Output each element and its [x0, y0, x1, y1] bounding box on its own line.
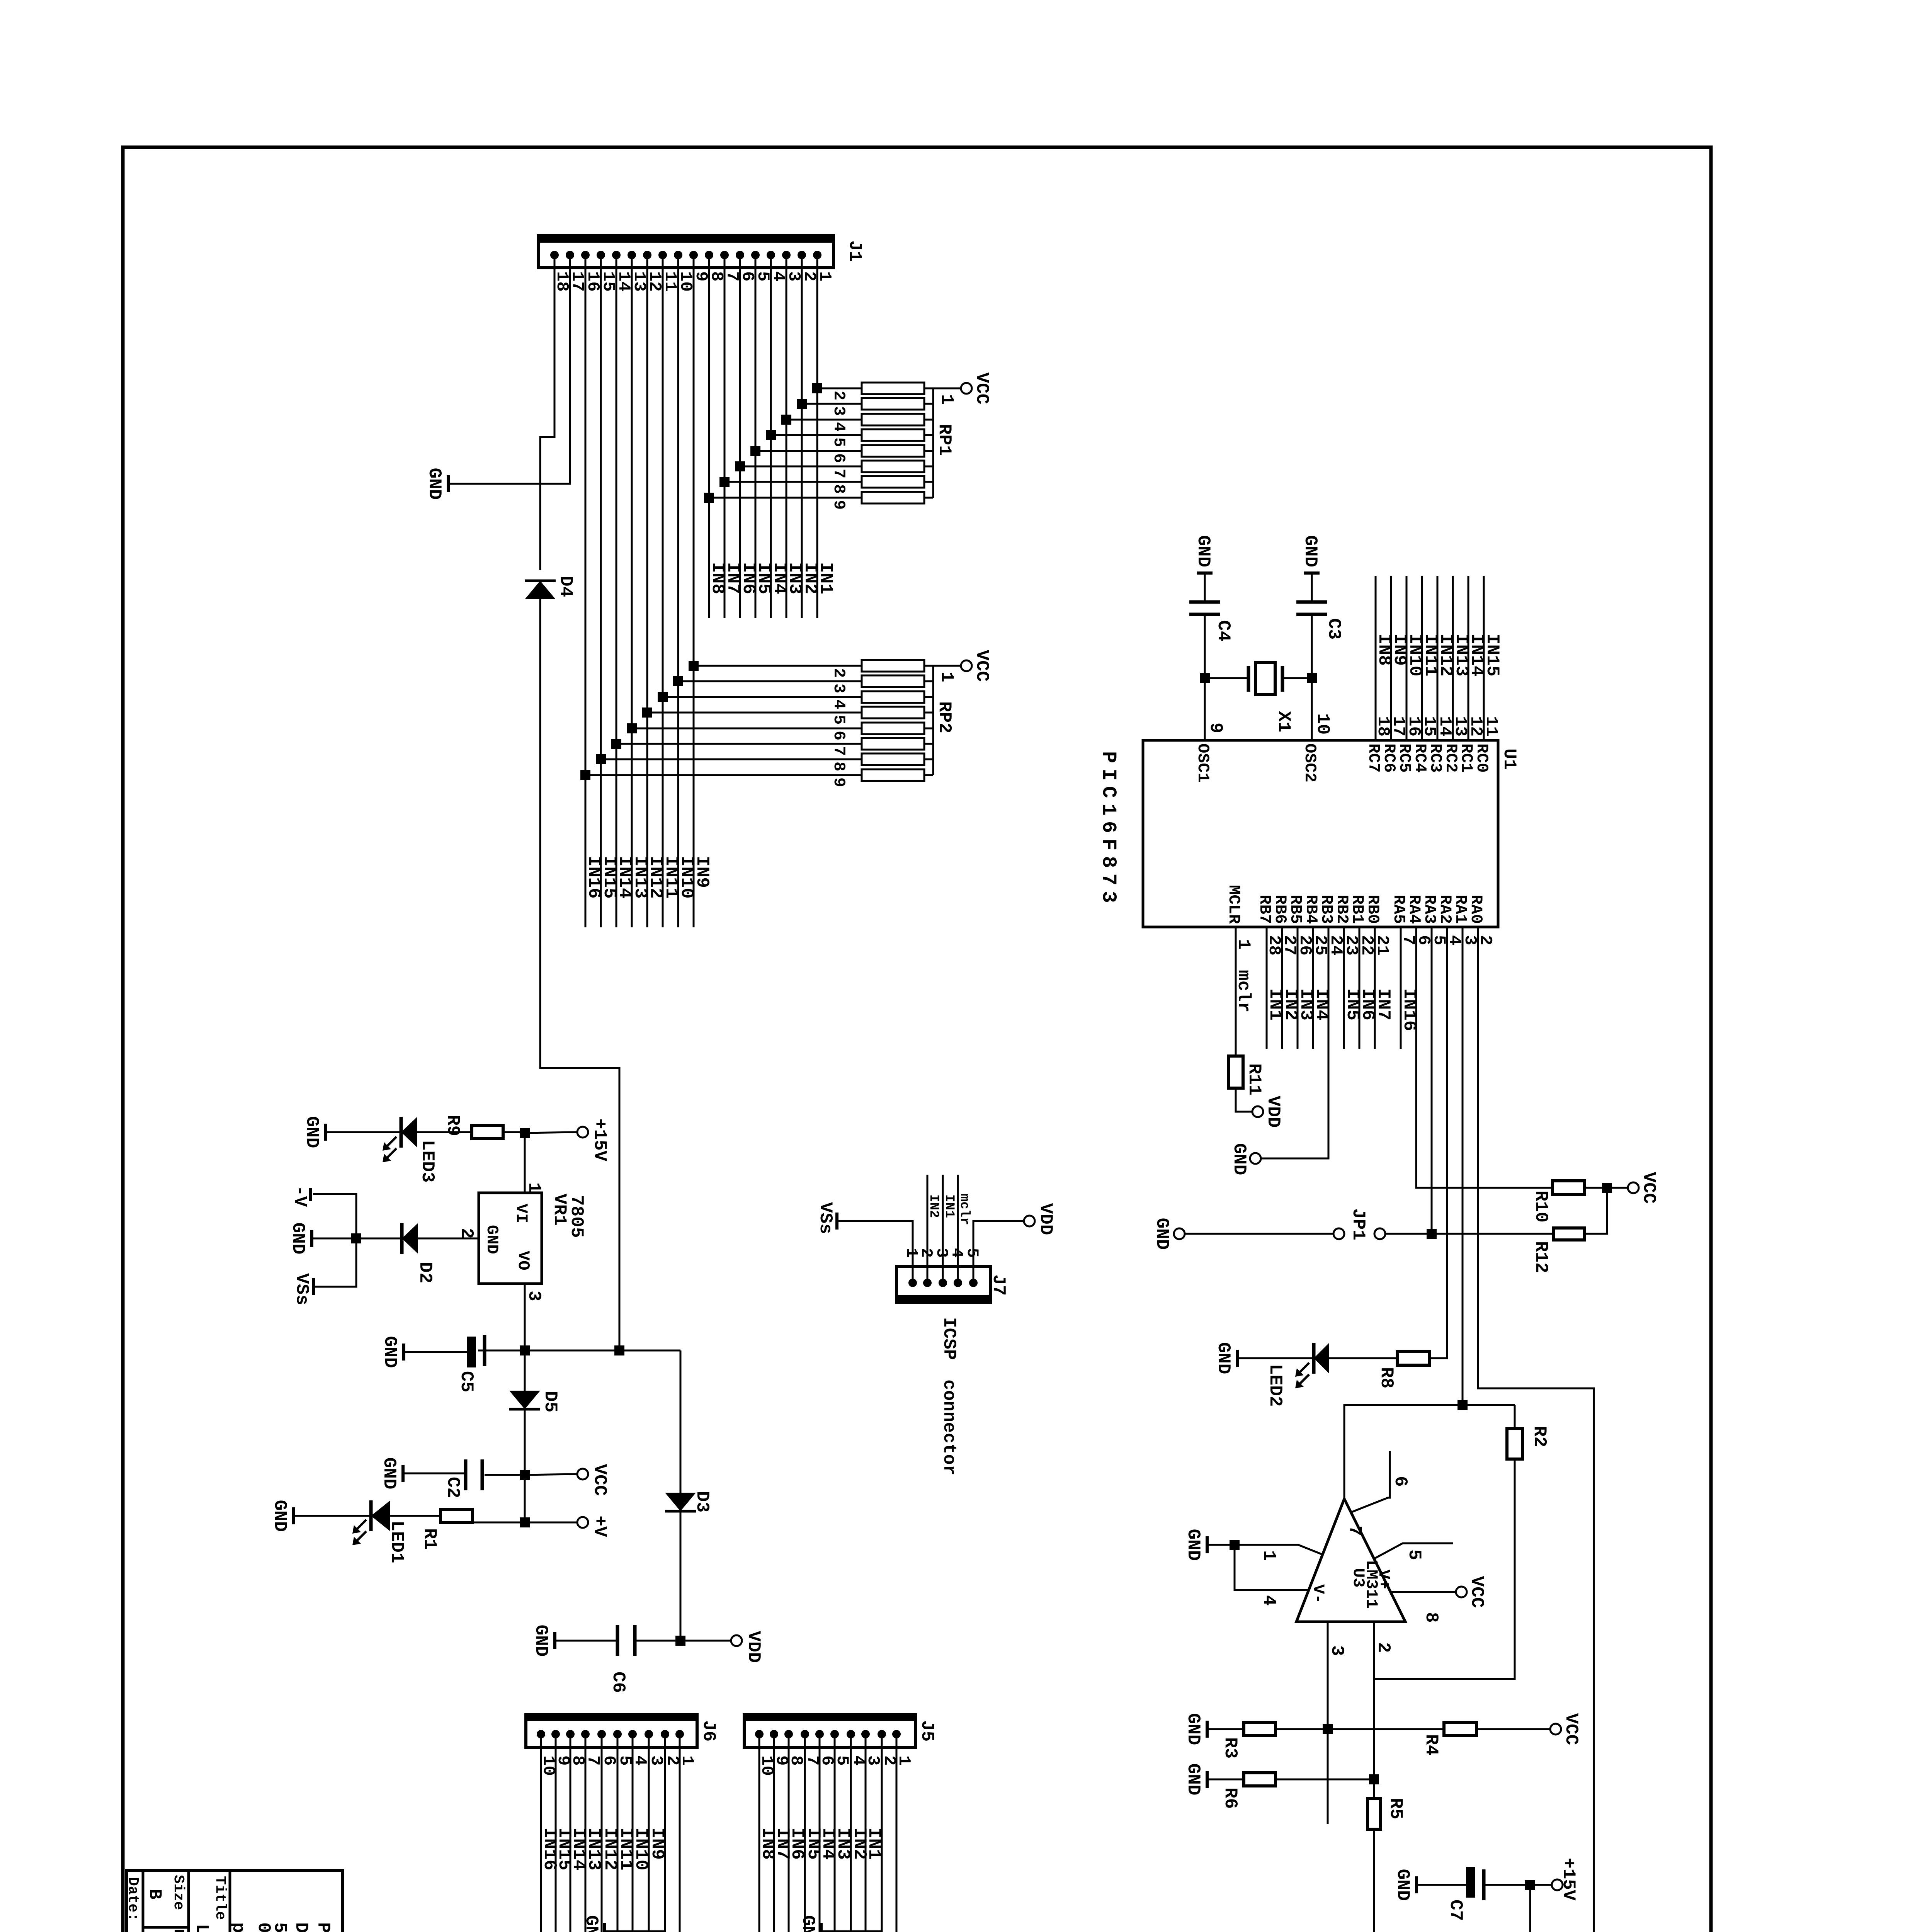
- wire regulator output bus: [478, 1350, 680, 1352]
- svg-text:P.H.Giling: P.H.Giling: [313, 1922, 333, 1932]
- svg-text:J5: J5: [917, 1720, 937, 1742]
- svg-text:1: 1: [937, 394, 957, 405]
- node junction RP2-9 on IN16: [580, 770, 590, 780]
- power VCC at RP1: [961, 383, 972, 394]
- svg-text:GND: GND: [270, 1500, 290, 1532]
- svg-text:2: 2: [456, 1228, 476, 1239]
- resistor RP2 element pin 3: [678, 680, 862, 682]
- U1 pin 21 wire net IN7: [1374, 927, 1376, 1049]
- op-amp U3 LM311 triangle: [1296, 1499, 1405, 1622]
- resistor RP1 element pin 3: [802, 403, 862, 405]
- U1 pin 6 RA4 wire to R10: [1416, 927, 1553, 1188]
- svg-text:IN8: IN8: [758, 1828, 778, 1860]
- wire J1 pin 13 net IN13: [631, 255, 633, 927]
- ground at J6: [603, 1923, 606, 1932]
- svg-text:VO: VO: [514, 1251, 532, 1270]
- wire VR1 pin3 output: [524, 1284, 526, 1350]
- resistor RP2 element pin 6: [632, 728, 862, 730]
- U3 pin 6 stub: [1351, 1451, 1390, 1512]
- svg-text:Title: Title: [212, 1876, 228, 1920]
- svg-text:GND: GND: [424, 468, 444, 500]
- capacitor C5 polarized: [478, 1350, 485, 1352]
- wire J1 pin 14 net IN14: [616, 255, 617, 927]
- U1 pin RC5 pin 16 wire net IN10: [1406, 576, 1408, 740]
- wire J5 pin 5 net IN3: [834, 1734, 836, 1932]
- power +15V at R9: [577, 1127, 588, 1138]
- U1 pin RC4 pin 15 wire net IN11: [1421, 576, 1423, 740]
- LED LED1: [369, 1500, 373, 1531]
- svg-text:D3: D3: [692, 1491, 712, 1512]
- RP2 pin1 wire to VCC: [933, 665, 961, 667]
- node junction RP2-6 on IN13: [627, 723, 637, 733]
- wire J6 pin 5 net IN11: [617, 1734, 619, 1932]
- wire R12 top to VCC junction: [1584, 1188, 1607, 1234]
- wire J1 pin 10 net IN10: [677, 255, 679, 927]
- wire output node to R2: [1514, 1405, 1516, 1429]
- power VSs below D2: [312, 1278, 315, 1295]
- svg-text:GND: GND: [1229, 1143, 1249, 1175]
- svg-text:V-: V-: [1309, 1584, 1327, 1604]
- wire J1 pin 9 net IN9: [693, 255, 695, 927]
- svg-text:R10: R10: [1531, 1190, 1551, 1223]
- node junction RP1-2 on IN1: [812, 383, 822, 393]
- title block box: [126, 1871, 343, 1932]
- wire junction to VCC: [1607, 1187, 1628, 1189]
- ground at C3: [1304, 571, 1320, 575]
- U1 pin 25 wire net IN4: [1312, 927, 1314, 1049]
- svg-text:1: 1: [524, 1182, 544, 1193]
- wire J6 pin 7 net IN13: [585, 1734, 587, 1932]
- wire D4 to regulator input: [540, 599, 619, 1350]
- wire J6 pin 6 net IN12: [601, 1734, 603, 1932]
- svg-text:R6: R6: [1220, 1787, 1240, 1809]
- svg-text:2: 2: [1373, 1642, 1393, 1653]
- ground at U3: [1206, 1536, 1209, 1553]
- resistor RP2 element pin 9: [585, 774, 862, 776]
- resistor R1: [440, 1509, 473, 1522]
- svg-text:RB0: RB0: [1364, 895, 1382, 924]
- svg-text:X1: X1: [1274, 711, 1294, 732]
- wire J1 pin 2 net IN2: [801, 255, 803, 618]
- svg-text:VSs: VSs: [292, 1273, 312, 1305]
- wire J5 pin 3 net IN1: [865, 1734, 867, 1932]
- resistor R6: [1244, 1773, 1276, 1786]
- svg-text:18: 18: [1373, 716, 1393, 736]
- wire J5 pin 9 net IN7: [773, 1734, 775, 1932]
- svg-text:4: 4: [830, 422, 848, 432]
- U1 pin 23 wire net IN5: [1343, 927, 1345, 1049]
- capacitor C6: [635, 1640, 680, 1642]
- svg-text:OSC1: OSC1: [1194, 743, 1212, 782]
- svg-text:VCC: VCC: [1467, 1576, 1487, 1608]
- resistor RP1 element pin 2: [817, 388, 862, 389]
- U1 pin RC6 pin 17 wire net IN9: [1390, 576, 1392, 740]
- svg-text:5: 5: [830, 715, 848, 724]
- wire J5 pin 1 to VCC: [868, 1734, 896, 1932]
- svg-text:mclr: mclr: [957, 1194, 971, 1225]
- U3 pin 1 and pin 4 ground wires: [1209, 1545, 1321, 1554]
- svg-text:7: 7: [830, 746, 848, 756]
- node junction RP1-8 on IN7: [719, 477, 730, 487]
- ground at C4: [1197, 571, 1213, 575]
- svg-text:ICSP: ICSP: [939, 1317, 959, 1360]
- wire VR1 pin2 to D2: [418, 1238, 479, 1240]
- connector J5: [744, 1715, 915, 1747]
- U3 pin 2 wire: [1373, 1622, 1375, 1679]
- svg-text:VCC: VCC: [972, 372, 992, 405]
- svg-text:RP2: RP2: [934, 701, 954, 733]
- wire J1 pin 7 net IN7: [724, 255, 726, 618]
- svg-text:C3: C3: [1324, 618, 1344, 639]
- svg-text:+V: +V: [590, 1515, 610, 1537]
- wire junction to +15V circle: [525, 1132, 577, 1133]
- resistor RP2 element pin 4: [663, 696, 862, 698]
- connector J7 ICSP: [896, 1267, 990, 1303]
- svg-text:1: 1: [937, 672, 957, 682]
- diode D3: [665, 1510, 696, 1513]
- resistor R3: [1244, 1723, 1276, 1736]
- wire junction to R12: [1432, 1233, 1553, 1235]
- capacitor C3: [1296, 600, 1327, 604]
- resistor RP2 element pin 2: [694, 665, 862, 667]
- U1 pin 26 wire net IN3: [1297, 927, 1299, 1049]
- svg-text:6: 6: [830, 453, 848, 463]
- node junction +V tap: [520, 1517, 530, 1527]
- U1 pin RC0 pin 11 wire net IN15: [1483, 576, 1485, 740]
- wire J5 pin 10 net IN8: [759, 1734, 760, 1932]
- svg-text:R3: R3: [1220, 1737, 1240, 1759]
- svg-text:peter.giling@modelspoorgroepve: peter.giling@modelspoorgroepvenlo.nl: [228, 1922, 248, 1932]
- svg-text:mclr: mclr: [1233, 970, 1253, 1012]
- wire J5 pin 8 net IN6: [788, 1734, 790, 1932]
- wire R5 to J3/J4 bus: [1373, 1829, 1375, 1932]
- svg-text:U1: U1: [1499, 748, 1519, 770]
- U1 pin RC3 pin 14 wire net IN12: [1437, 576, 1439, 740]
- wire R2 to pin2 node: [1374, 1459, 1515, 1679]
- wire JP1 to GND circle: [1185, 1233, 1333, 1235]
- wire J1 pin 4 net IN4: [770, 255, 772, 618]
- svg-text:9: 9: [1206, 723, 1226, 733]
- wire LED3 to ground: [327, 1131, 401, 1133]
- wire output bus over to D3: [680, 1350, 682, 1494]
- svg-text:Document Number: Document Number: [170, 1929, 187, 1932]
- wire +15V to junction: [1530, 1884, 1551, 1886]
- wire +15V junction to D1: [1529, 1885, 1531, 1932]
- svg-text:+15V: +15V: [1558, 1858, 1578, 1901]
- node junction RP2-2 on IN9: [689, 661, 699, 671]
- resistor R11: [1229, 1056, 1243, 1088]
- svg-text:GND: GND: [288, 1223, 308, 1255]
- U3 pin 3 wire: [1327, 1622, 1329, 1824]
- svg-text:Loconet multi I/O interface vo: Loconet multi I/O interface voor MGV: [192, 1924, 212, 1932]
- node junction VR1 out bus: [520, 1345, 530, 1355]
- wire bus to D5: [524, 1350, 526, 1393]
- svg-text:C2: C2: [443, 1477, 463, 1498]
- capacitor C7 polarized: [1484, 1884, 1530, 1886]
- svg-text:R2: R2: [1529, 1426, 1549, 1447]
- wire LED2 to ground: [1238, 1357, 1314, 1359]
- wire R8 to LED2: [1329, 1357, 1397, 1359]
- wire C7 to ground: [1418, 1884, 1466, 1886]
- resistor R4: [1444, 1723, 1476, 1736]
- svg-text:GND: GND: [531, 1625, 551, 1657]
- wire J6 pin 8 net IN14: [570, 1734, 571, 1932]
- ground at D2: [310, 1230, 313, 1247]
- svg-text:V+: V+: [1374, 1570, 1393, 1589]
- svg-text:IN16: IN16: [584, 856, 604, 898]
- ground circle at RB3: [1250, 1153, 1261, 1164]
- wire R1 to LED1: [390, 1515, 440, 1517]
- node junction RP1-5 on IN4: [766, 430, 776, 440]
- svg-text:GND: GND: [798, 1915, 818, 1932]
- power -V below D2: [309, 1188, 312, 1201]
- wire J1 pin 1 net IN1: [816, 255, 818, 618]
- wire J7 pin2 net IN2: [927, 1175, 929, 1283]
- svg-text:IN8: IN8: [707, 562, 728, 594]
- svg-text:R8: R8: [1376, 1367, 1396, 1388]
- ground at C2: [401, 1465, 405, 1482]
- svg-text:2: 2: [830, 391, 848, 400]
- svg-text:7805: 7805: [566, 1195, 587, 1238]
- node junction +15V R9: [520, 1128, 530, 1138]
- svg-text:D2: D2: [415, 1262, 435, 1283]
- resistor RP2 element pin 5: [647, 712, 862, 714]
- svg-text:IN16: IN16: [539, 1828, 560, 1870]
- node junction RP1-6 on IN5: [750, 446, 760, 456]
- resistor RP1 element pin 5: [771, 434, 862, 436]
- ground at C7: [1415, 1876, 1418, 1893]
- ground at C6: [553, 1632, 556, 1649]
- node junction pin3 R3R4: [1323, 1724, 1333, 1734]
- U1 pin MCLR pin 1 wire net mclr: [1235, 927, 1237, 1056]
- U1 pin RC2 pin 13 wire net IN13: [1452, 576, 1454, 740]
- svg-text:U3: U3: [1349, 1568, 1367, 1587]
- ground circle at JP1: [1174, 1228, 1185, 1239]
- wire R4 to R3: [1276, 1728, 1444, 1730]
- U1 pin 27 wire net IN2: [1281, 927, 1283, 1049]
- resistor RP2 element pin 7: [616, 743, 862, 745]
- svg-text:GND: GND: [1183, 1764, 1203, 1796]
- node junction +15V D1 C7: [1525, 1880, 1535, 1890]
- wire J6 pin 1 to VCC: [651, 1734, 680, 1932]
- wire J7 pin1 to VSs: [838, 1221, 913, 1283]
- U1 pin RC1 pin 12 wire net IN14: [1468, 576, 1469, 740]
- U1 pin OSC2 pin 10 wire: [1311, 575, 1313, 602]
- svg-text:R1: R1: [420, 1528, 440, 1549]
- wire J1 pin 11 net IN11: [662, 255, 664, 927]
- svg-text:7: 7: [1345, 1526, 1365, 1536]
- wire junction to GND: [313, 1238, 356, 1240]
- svg-text:6: 6: [830, 731, 848, 740]
- node junction VCC R10/R12: [1602, 1183, 1612, 1193]
- svg-text:JP1: JP1: [1348, 1208, 1368, 1240]
- svg-text:2: 2: [830, 668, 848, 678]
- IC U1 PIC16F873 body: [1143, 740, 1498, 927]
- resistor R2: [1507, 1429, 1522, 1459]
- svg-text:PIC16F873: PIC16F873: [1097, 751, 1120, 908]
- wire VCC to R4 R3 chain: [1476, 1728, 1550, 1730]
- U1 pin 22 wire net IN6: [1359, 927, 1361, 1049]
- diode D5: [509, 1408, 540, 1411]
- node junction RP1-9 on IN8: [704, 493, 714, 503]
- capacitor C2: [485, 1474, 525, 1476]
- svg-text:connector: connector: [939, 1379, 959, 1475]
- ground at J1 pin 17: [447, 475, 450, 492]
- resistor R5: [1367, 1798, 1381, 1829]
- wire R9 to LED3: [417, 1131, 472, 1133]
- ground at J5: [820, 1923, 823, 1932]
- wire R6 to ground: [1276, 1779, 1374, 1781]
- node junction RP2-4 on IN11: [658, 692, 668, 702]
- wire J1 pin 3 net IN3: [786, 255, 787, 618]
- svg-text:LED2: LED2: [1265, 1364, 1285, 1406]
- svg-text:Size: Size: [170, 1875, 187, 1910]
- power VCC at R4: [1550, 1724, 1561, 1735]
- svg-text:GND: GND: [1183, 1713, 1203, 1745]
- svg-text:GND: GND: [483, 1225, 501, 1254]
- U1 pin OSC1 pin 9 wire: [1204, 575, 1206, 602]
- svg-text:GND: GND: [1193, 535, 1213, 567]
- svg-text:R11: R11: [1244, 1063, 1264, 1095]
- svg-text:VDD: VDD: [1263, 1096, 1283, 1128]
- RP1 common bus wire: [932, 388, 934, 498]
- svg-text:GND: GND: [380, 1336, 400, 1368]
- svg-text:8: 8: [1421, 1612, 1441, 1623]
- wire LED1 to ground: [295, 1515, 371, 1517]
- resistor R9: [503, 1131, 525, 1133]
- power VCC at RP2: [961, 660, 972, 671]
- svg-text:077 3985133: 077 3985133: [253, 1922, 274, 1932]
- svg-text:5: 5: [963, 1248, 981, 1258]
- wire J5 pin 7 net IN5: [804, 1734, 806, 1932]
- svg-text:IN1: IN1: [942, 1194, 956, 1218]
- resistor R10: [1553, 1181, 1585, 1194]
- node junction R6 on pin2 node: [1369, 1774, 1379, 1784]
- wire VR1 pin1 input: [524, 1133, 526, 1193]
- svg-text:IN7: IN7: [1373, 988, 1393, 1020]
- wire J5 pin 2 to GND: [822, 1734, 882, 1931]
- svg-text:LED3: LED3: [417, 1140, 437, 1182]
- node junction RA3 JP1: [1427, 1229, 1437, 1239]
- power +15V at C7: [1552, 1879, 1563, 1890]
- U1 pin RC7 pin 18 wire net IN8: [1375, 576, 1377, 740]
- wire C6 to ground: [556, 1640, 617, 1642]
- wire J6 pin 3 net IN9: [648, 1734, 650, 1932]
- capacitor C4: [1189, 600, 1220, 604]
- svg-text:VCC: VCC: [1561, 1713, 1581, 1745]
- svg-text:GND: GND: [1152, 1218, 1172, 1250]
- wire J6 pin 4 net IN10: [632, 1734, 634, 1932]
- svg-text:GND: GND: [1300, 535, 1320, 567]
- svg-text:IN8: IN8: [1374, 634, 1394, 666]
- node junction RP1-7 on IN6: [735, 461, 745, 471]
- ground at R6: [1206, 1771, 1209, 1788]
- wire J1 pin 8 net IN8: [708, 255, 710, 618]
- node junction RA1 output: [1458, 1400, 1468, 1410]
- node junction D4 feed: [614, 1345, 624, 1355]
- svg-text:VDD: VDD: [743, 1631, 764, 1663]
- wire J7 pin3 net IN1: [942, 1175, 944, 1283]
- U1 pin 3 RA1 wire to comparator output: [1462, 927, 1464, 1405]
- svg-text:RP1: RP1: [934, 424, 954, 456]
- svg-text:R12: R12: [1531, 1241, 1551, 1273]
- node junction D2 grounds: [351, 1233, 361, 1243]
- svg-text:VSs: VSs: [815, 1202, 835, 1234]
- wire J6 pin 10 net IN16: [540, 1734, 542, 1932]
- svg-text:8: 8: [830, 484, 848, 494]
- svg-text:-V: -V: [290, 1185, 310, 1207]
- svg-text:3: 3: [1327, 1645, 1347, 1656]
- node junction RP2-3 on IN10: [673, 676, 683, 686]
- power VCC at U3 pin8: [1456, 1587, 1467, 1597]
- wire pin2 node through R5: [1373, 1679, 1375, 1798]
- svg-text:B: B: [145, 1889, 165, 1900]
- resistor RP2 element pin 8: [601, 759, 862, 760]
- svg-text:GND: GND: [379, 1458, 399, 1490]
- svg-text:9: 9: [830, 500, 848, 510]
- svg-text:RC7: RC7: [1364, 743, 1383, 773]
- wire J1 pin 5 net IN5: [755, 255, 757, 618]
- RP2 common bus wire: [932, 666, 934, 775]
- crystal X1: [1200, 673, 1210, 683]
- svg-text:C4: C4: [1213, 620, 1233, 641]
- node junction RP2-7 on IN14: [611, 739, 621, 749]
- voltage regulator VR1 7805 body: [479, 1193, 542, 1284]
- resistor RP1 element pin 4: [786, 419, 862, 421]
- power VCC at R10 R12: [1628, 1182, 1639, 1193]
- svg-text:R5: R5: [1386, 1798, 1406, 1819]
- svg-text:IN2: IN2: [926, 1194, 941, 1218]
- wire J7 pin4 net mclr: [957, 1175, 959, 1283]
- svg-text:1: 1: [1233, 939, 1253, 950]
- wire J1 pin 12 net IN12: [646, 255, 648, 927]
- wire J1 pin 16 net IN16: [585, 255, 587, 927]
- svg-text:3: 3: [830, 684, 848, 693]
- wire J6 pin 2 to GND: [605, 1734, 665, 1931]
- node junction RP2-8 on IN15: [596, 754, 606, 764]
- U1 pin 28 wire net IN1: [1266, 927, 1268, 1049]
- wire D3 to VDD C6 junction: [680, 1511, 682, 1641]
- wire J1 pin 17 to GND: [450, 255, 570, 484]
- resistor RP1 element pin 7: [740, 466, 862, 468]
- resistor R12: [1553, 1228, 1584, 1240]
- wire J1 pin 18 +15V input: [540, 255, 554, 570]
- svg-text:3: 3: [830, 406, 848, 416]
- svg-text:6: 6: [1390, 1476, 1410, 1487]
- svg-text:GND: GND: [1393, 1869, 1413, 1901]
- svg-text:Date:: Date:: [124, 1877, 141, 1921]
- power VDD in supply: [731, 1635, 742, 1646]
- wire C2 to ground: [405, 1473, 466, 1475]
- U1 pin 24 RB3 wire to GND: [1261, 927, 1328, 1158]
- svg-text:J1: J1: [845, 240, 865, 262]
- svg-text:OSC2: OSC2: [1301, 743, 1319, 782]
- svg-text:VCC: VCC: [590, 1464, 610, 1496]
- svg-text:De Pelslap 6: De Pelslap 6: [291, 1922, 311, 1932]
- wire R11 to VDD: [1236, 1088, 1252, 1112]
- svg-text:J7: J7: [988, 1274, 1009, 1296]
- svg-text:5: 5: [1404, 1549, 1424, 1560]
- node junction RP2-5 on IN12: [642, 707, 652, 718]
- title block divider lines: [229, 1871, 231, 1932]
- svg-text:VDD: VDD: [1036, 1203, 1056, 1235]
- svg-text:VCC: VCC: [1639, 1172, 1659, 1204]
- power VDD at J7: [1024, 1216, 1035, 1226]
- resistor R8: [1397, 1352, 1430, 1365]
- U3 pin 5 stub: [1374, 1543, 1453, 1559]
- svg-text:7: 7: [830, 469, 848, 478]
- resistor RP1 element pin 9: [709, 497, 862, 499]
